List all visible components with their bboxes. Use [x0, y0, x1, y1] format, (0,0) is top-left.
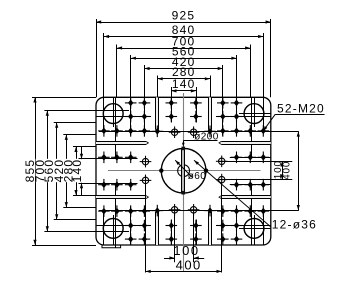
- M20 tapped hole at 171,116: [166, 111, 178, 123]
- row line r6 left: [84, 183, 138, 185]
- tie-bar circle vertical centerline bottom-left: [113, 215, 115, 245]
- extension line right lower (d36 pair): [218, 179, 292, 181]
- M20 tapped hole at 144,116: [139, 111, 151, 123]
- M20 tapped hole at 144,131: [139, 125, 151, 137]
- diam 36 hole left upper: [140, 156, 152, 168]
- svg-text:400: 400: [176, 257, 202, 272]
- grid line column c9 top (through tie-bar circle): [251, 97, 253, 158]
- M20 tapped hole at 117,157: [111, 152, 123, 164]
- grid line column c10 bottom: [263, 213, 265, 246]
- M20 tapped hole at 236,103: [231, 97, 243, 109]
- M20 tapped hole at 144,239: [139, 233, 151, 245]
- M20 tapped hole at 104,131: [98, 125, 110, 137]
- M20 tapped hole at 210,211: [204, 205, 216, 217]
- dimension 280 (left): [62, 147, 78, 195]
- dimension 400 (right): [281, 131, 300, 210]
- svg-text:400: 400: [281, 161, 292, 180]
- M20 tapped hole at 196,239: [190, 233, 202, 245]
- tie-bar circle vertical centerline top-right: [254, 97, 256, 127]
- extension lines bottom 400: [146, 183, 222, 273]
- tie-bar circle horizontal centerline top-right: [239, 113, 271, 115]
- dimension 560 (left): [42, 123, 58, 220]
- row line r4 left: [84, 158, 138, 160]
- note 12-d36 with leader: [193, 159, 317, 231]
- horizontal T-slot left upper: [96, 142, 148, 145]
- grid line column c5 bottom: [171, 220, 173, 246]
- grid line column c3 top: [130, 97, 132, 135]
- M20 tapped hole at 263,185: [258, 179, 270, 191]
- center vertical keyway slot: [182, 148, 185, 192]
- M20 tapped hole at 157,211: [152, 205, 164, 217]
- tie-bar hole top-left: [103, 104, 123, 124]
- M20 tapped hole at 144,211: [139, 205, 151, 217]
- platen plate outline: [96, 97, 271, 245]
- dimension 100 (right): [273, 160, 284, 179]
- grid line column c8 top: [236, 97, 238, 135]
- M20 tapped hole at 250,157: [245, 152, 257, 164]
- dimension 140 (left): [70, 147, 84, 195]
- diam 36 hole right upper: [216, 156, 228, 168]
- M20 tapped hole at 131,211: [125, 205, 137, 217]
- dimension 855 (left): [23, 97, 37, 245]
- M20 tapped hole at 117,185: [111, 179, 123, 191]
- M20 tapped hole at 171,103: [166, 97, 178, 109]
- dimension 400 (bottom): [146, 257, 222, 273]
- tie-bar circle vertical centerline bottom-right: [254, 215, 256, 245]
- grid row line r3 across: [99, 131, 299, 133]
- dimension 280 (top): [158, 65, 211, 80]
- diam 36 hole top right: [188, 126, 200, 138]
- key square top of ring: [182, 147, 186, 151]
- tie-bar circle vertical centerline top-left: [113, 97, 115, 127]
- M20 tapped hole at 236,185: [231, 179, 243, 191]
- tie-bar centerlines top-left: [96, 110, 129, 112]
- dimension 420 (left): [52, 135, 68, 208]
- grid line column c3 bottom: [130, 207, 132, 246]
- svg-text:ø60: ø60: [188, 171, 206, 182]
- M20 tapped hole at 263,157: [258, 152, 270, 164]
- diam 36 hole right lower: [216, 174, 228, 186]
- M20 tapped hole at 236,239: [231, 233, 243, 245]
- grid line column c5 top: [171, 97, 173, 122]
- dimension 700 (top): [117, 34, 250, 49]
- M20 tapped hole at 210,131: [204, 126, 216, 138]
- grid line column c6 top: [196, 97, 198, 122]
- centerline horizontal through plate center: [108, 170, 261, 172]
- horizontal T-slot left lower: [96, 196, 148, 199]
- grid line column c4 top: [144, 97, 146, 135]
- nozzle hole circle (diam 60): [178, 165, 190, 177]
- label diam 60 with leader: [174, 159, 206, 182]
- M20 tapped hole at 131,157: [125, 152, 137, 164]
- grid line column c10 top: [263, 97, 265, 129]
- M20 tapped hole at 223,103: [217, 97, 229, 109]
- svg-text:52-M20: 52-M20: [277, 101, 325, 115]
- diam 36 hole bottom right: [188, 204, 200, 216]
- M20 tapped hole at 117,131: [111, 125, 123, 137]
- M20 tapped hole at 250,211: [245, 205, 257, 217]
- grid line column c1 bottom: [103, 213, 105, 246]
- M20 tapped hole at 196,116: [190, 111, 202, 123]
- grid line column c8 bottom: [236, 207, 238, 246]
- grid row line r2 left: [96, 116, 151, 118]
- M20 tapped hole at 236,116: [231, 111, 243, 123]
- extension line right upper (d36 pair): [218, 161, 292, 163]
- horizontal T-slot right upper: [219, 142, 271, 145]
- M20 tapped hole at 131,239: [125, 233, 137, 245]
- label diam 200 with leader: [182, 131, 219, 147]
- M20 tapped hole at 144,103: [139, 97, 151, 109]
- bottom locating tab: [102, 245, 121, 248]
- row line r6 right: [230, 184, 271, 186]
- M20 tapped hole at 131,103: [125, 97, 137, 109]
- vertical T-slot top right: [209, 97, 212, 130]
- M20 tapped hole at 196,226: [190, 220, 202, 232]
- M20 tapped hole at 131,116: [125, 111, 137, 123]
- svg-text:140: 140: [70, 159, 84, 183]
- grid line column c2 bottom (through tie-bar circle and tab): [115, 185, 117, 248]
- tie-bar hole top-right: [244, 104, 264, 124]
- grid line column c1 top: [103, 97, 105, 129]
- horizontal T-slot right lower: [219, 196, 271, 199]
- svg-text:12-ø36: 12-ø36: [272, 217, 317, 231]
- M20 tapped hole at 223,226: [217, 220, 229, 232]
- diam 36 hole left lower: [140, 175, 152, 187]
- dimension 560 (top): [131, 45, 237, 60]
- row line r4 right: [230, 157, 271, 159]
- M20 tapped hole at 223,239: [217, 233, 229, 245]
- svg-text:100: 100: [173, 243, 199, 258]
- grid line column c6 bottom: [196, 220, 198, 246]
- grid row line r8 left: [96, 225, 151, 227]
- extension lines for top dimensions: [97, 19, 271, 97]
- M20 tapped hole at 236,211: [231, 205, 243, 217]
- M20 tapped hole at 171,239: [166, 233, 178, 245]
- diam 36 hole bottom left: [169, 204, 181, 216]
- tie-bar hole bottom-right: [244, 219, 264, 239]
- M20 tapped hole at 236,131: [231, 125, 243, 137]
- M20 tapped hole at 236,157: [231, 152, 243, 164]
- dimension 700 (left): [33, 111, 49, 232]
- vertical T-slot top left: [156, 97, 159, 130]
- grid line column c2 top (through tie-bar circle): [115, 97, 117, 158]
- grid row line r2 right: [216, 116, 271, 118]
- vertical T-slot bottom left: [156, 212, 159, 245]
- M20 tapped hole at 104,157: [98, 152, 110, 164]
- M20 tapped hole at 104,211: [98, 205, 110, 217]
- M20 tapped hole at 131,226: [125, 220, 137, 232]
- M20 tapped hole at 131,131: [125, 125, 137, 137]
- dimension 140 (top): [171, 77, 196, 92]
- extension lines bottom 100: [175, 213, 194, 262]
- grid row line r7 across: [99, 210, 299, 212]
- M20 tapped hole at 171,226: [166, 220, 178, 232]
- grid row line r8 right: [216, 225, 271, 227]
- M20 tapped hole at 250,185: [245, 179, 257, 191]
- svg-text:925: 925: [172, 8, 196, 22]
- M20 tapped hole at 196,103: [190, 97, 202, 109]
- M20 tapped hole at 263,131: [258, 125, 270, 137]
- M20 tapped hole at 131,185: [125, 179, 137, 191]
- centerline vertical through plate center: [183, 93, 185, 272]
- diam 36 hole top left: [169, 126, 181, 138]
- M20 tapped hole at 117,211: [111, 205, 123, 217]
- extension lines for left dimensions: [32, 98, 129, 246]
- svg-text:140: 140: [172, 77, 196, 91]
- M20 tapped hole at 157,131: [152, 126, 164, 138]
- locating ring circle (diam 200): [161, 148, 206, 193]
- grid line column c9 bottom (through tie-bar circle): [251, 185, 253, 245]
- dimension 840 (top): [104, 23, 263, 38]
- note 52-M20 with leader: [262, 101, 325, 132]
- M20 tapped hole at 236,226: [231, 220, 243, 232]
- tie-bar hole bottom-left: [103, 219, 123, 239]
- M20 tapped hole at 263,211: [258, 205, 270, 217]
- tie-bar circle horizontal centerline bottom-right: [239, 228, 271, 230]
- grid line column c7 top: [222, 97, 224, 135]
- M20 tapped hole at 223,131: [217, 125, 229, 137]
- M20 tapped hole at 104,185: [98, 179, 110, 191]
- vertical T-slot bottom right: [209, 212, 212, 245]
- M20 tapped hole at 250,131: [245, 125, 257, 137]
- M20 tapped hole at 223,116: [217, 111, 229, 123]
- dimension 100 (bottom): [164, 243, 204, 259]
- node right quadrant of ring: [204, 168, 208, 172]
- M20 tapped hole at 223,211: [217, 205, 229, 217]
- node left quadrant of ring: [159, 168, 163, 172]
- key square bottom of ring: [182, 191, 186, 195]
- M20 tapped hole at 144,226: [139, 220, 151, 232]
- dimension 420 (top): [144, 55, 223, 70]
- dimension 925 (top): [96, 8, 271, 23]
